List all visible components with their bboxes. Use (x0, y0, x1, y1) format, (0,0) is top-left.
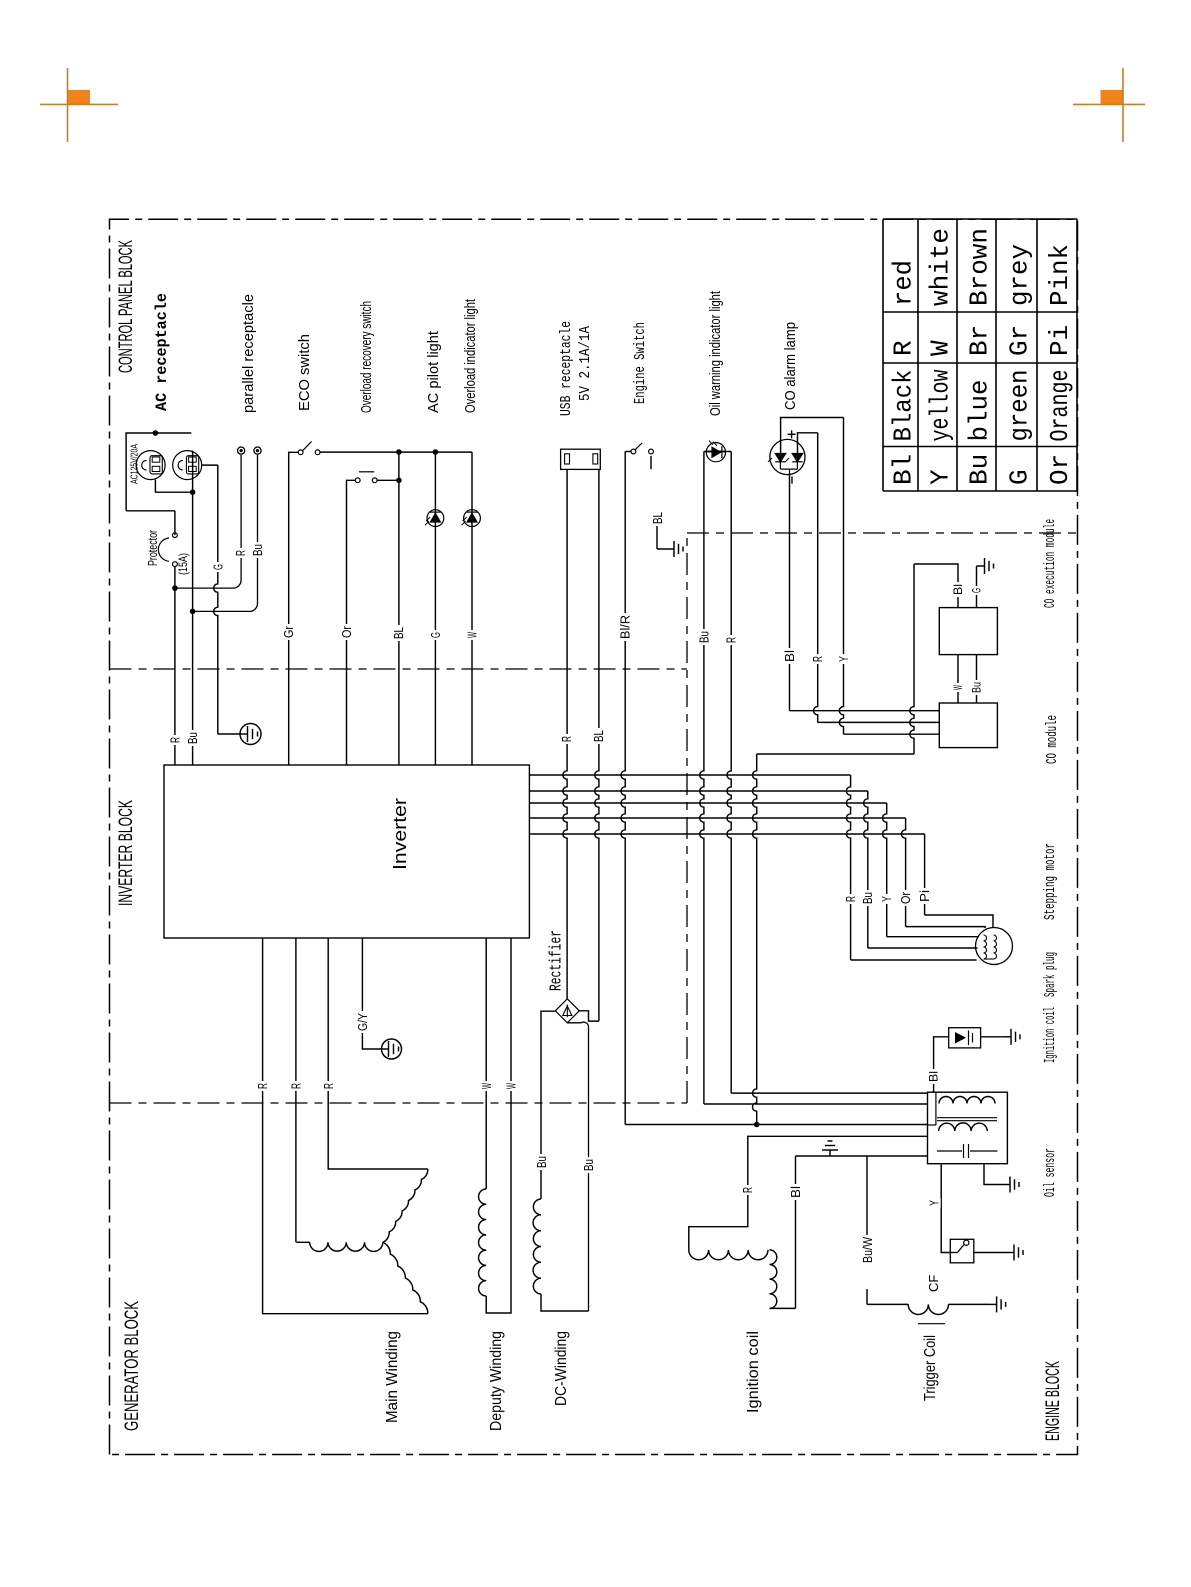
svg-text:Bl/R: Bl/R (618, 615, 633, 639)
wire rectifier top to DC winding (541, 1011, 555, 1199)
svg-text:R: R (168, 737, 183, 743)
wire Bu/W to trigger coil (866, 1156, 868, 1263)
svg-text:ENGINE BLOCK: ENGINE BLOCK (1043, 1361, 1064, 1441)
parallel receptacle pin 1 (238, 447, 245, 454)
trigger coil (867, 1303, 908, 1305)
svg-text:Stepping motor: Stepping motor (1042, 843, 1059, 920)
label Pi (motor) (919, 888, 931, 904)
label Or (341, 624, 353, 640)
AC receptacle socket 1 (136, 451, 165, 480)
label R (motor) (845, 894, 857, 904)
wire R USB to rectifier (563, 469, 567, 998)
svg-text:R: R (255, 1083, 270, 1089)
svg-text:G: G (428, 632, 443, 638)
wire color legend table (883, 219, 1077, 491)
svg-text:Pink: Pink (1045, 244, 1075, 306)
svg-text:5V 2.1A/1A: 5V 2.1A/1A (577, 326, 594, 401)
svg-text:Pi: Pi (1045, 325, 1075, 356)
label G (212, 562, 224, 572)
stepping motor (976, 928, 1013, 965)
ignition coil core (937, 1117, 997, 1119)
svg-text:Bu: Bu (696, 631, 711, 643)
svg-text:Y: Y (926, 469, 956, 485)
label G (exec) (971, 586, 982, 595)
svg-text:Bl: Bl (927, 1071, 941, 1082)
svg-text:Oil sensor: Oil sensor (1042, 1148, 1059, 1197)
earth ground circle (G/Y) (382, 1039, 402, 1059)
wire bundle v1 R (529, 774, 850, 776)
svg-text:yellow: yellow (926, 369, 956, 441)
earth ground (ignition box) (1003, 1184, 1010, 1186)
label Bu (dc1) (536, 1154, 548, 1170)
svg-text:Bu: Bu (860, 892, 875, 904)
svg-text:Orange: Orange (1045, 370, 1075, 442)
svg-text:R: R (843, 896, 858, 902)
wire Bl co lamp (789, 475, 791, 711)
wire BL USB to rectifier (595, 469, 599, 1021)
label W (overload) (466, 630, 478, 640)
svg-text:Rectifier: Rectifier (548, 930, 567, 991)
wire switch to BL bus (377, 479, 399, 481)
svg-text:BL: BL (650, 512, 665, 524)
label Bl (exec) (953, 582, 964, 597)
svg-text:Oil warning indicator light: Oil warning indicator light (707, 290, 724, 416)
wire bundle v3 Y (529, 802, 886, 804)
ECO switch (298, 450, 303, 455)
wire G pilot to inverter (434, 452, 436, 765)
label Y (co) (838, 654, 850, 664)
wire R co lamp (798, 433, 818, 454)
label Bu at inverter (187, 730, 199, 746)
label BL (usb) (593, 728, 605, 744)
CO alarm lamp (770, 439, 805, 474)
svg-text:Overload indicator light: Overload indicator light (462, 298, 479, 413)
svg-text:(15A): (15A) (176, 553, 190, 575)
wire co module link (757, 753, 914, 755)
wire Bl/R drop to ignition coil box (625, 1124, 927, 1126)
svg-text:CO execution module: CO execution module (1042, 519, 1059, 608)
svg-text:Bl: Bl (889, 454, 919, 485)
svg-text:W: W (465, 632, 480, 638)
main winding (263, 938, 428, 1314)
earth ground (ignition common) (829, 1150, 831, 1156)
earth ground circle (control panel G) (240, 724, 261, 745)
label G (pilot) (430, 630, 442, 640)
svg-text:Y: Y (879, 896, 894, 902)
ignition coil capacitor (937, 1150, 962, 1152)
wire receptacle junction (153, 430, 159, 436)
wire R oil light (706, 451, 731, 453)
earth ground (co exec) (977, 565, 985, 567)
svg-text:Protector: Protector (145, 530, 160, 566)
CO module box (939, 703, 997, 748)
svg-text:Y: Y (836, 656, 851, 662)
svg-text:AC125V/20A: AC125V/20A (130, 444, 141, 484)
svg-text:Or: Or (339, 625, 354, 638)
svg-text:Engine Switch: Engine Switch (632, 322, 649, 404)
svg-text:Bu: Bu (581, 1159, 596, 1171)
svg-text:R: R (288, 1083, 303, 1089)
wire Bl/R engine switch to ignition coil (625, 451, 631, 453)
divider co area right (dash-dot vertical) (687, 532, 1078, 534)
label R (parallel) (235, 548, 247, 558)
wire R drop to co module (818, 721, 940, 723)
wire oil sensor earth (974, 1252, 1007, 1254)
svg-text:BL: BL (391, 627, 406, 639)
wire BL to earth (656, 526, 658, 549)
wire G/Y from inverter (362, 938, 381, 1049)
wire BL to inverter (398, 452, 400, 765)
label Bu (module) (971, 680, 982, 695)
label W (dw2) (505, 1081, 517, 1091)
svg-text:W: W (504, 1083, 519, 1089)
divider generator block (dash-dot vertical) (110, 1102, 688, 1104)
label Bl/R (620, 613, 632, 641)
svg-text:red: red (889, 260, 919, 306)
earth ground (spark plug) (1004, 1036, 1011, 1038)
earth ground (oil sensor) (1007, 1252, 1014, 1254)
wire R drop to ignition coil box (731, 1092, 927, 1094)
svg-text:Bl: Bl (788, 1186, 803, 1198)
svg-text:Br: Br (965, 325, 995, 356)
label G/Y (357, 1011, 369, 1033)
wire socket2 Bu bus (192, 451, 194, 765)
svg-text:G: G (970, 588, 984, 593)
label Gr (283, 624, 295, 640)
deputy winding (485, 938, 487, 1189)
label R (mw3) (323, 1081, 335, 1091)
wire Bl drop to co module (790, 710, 940, 712)
wire Gr ECO to inverter (289, 452, 299, 765)
svg-text:Main Winding: Main Winding (384, 1331, 401, 1423)
svg-text:Pi: Pi (917, 890, 932, 902)
svg-text:white: white (926, 228, 956, 306)
svg-text:R: R (559, 736, 574, 742)
svg-text:Bu: Bu (970, 682, 984, 693)
wire rectifier left to DC winding (567, 1022, 588, 1311)
svg-text:Black: Black (889, 370, 919, 442)
wire Y drop to co module (844, 733, 940, 735)
svg-text:parallel receptacle: parallel receptacle (240, 294, 257, 413)
svg-text:CO module: CO module (1044, 715, 1061, 764)
protector (15A) (173, 533, 178, 538)
wire W overload light to inverter (471, 452, 473, 765)
earth ground (trigger coil) (990, 1303, 997, 1305)
wire protector to R bus (174, 567, 176, 589)
wire R bus to inverter (174, 588, 176, 765)
junction dot co link (754, 1122, 760, 1128)
svg-text:R: R (889, 340, 919, 356)
wire Y to oil sensor (941, 1164, 950, 1253)
label BL (engine sw) (652, 510, 664, 526)
wire bundle v5 Pi (529, 833, 924, 835)
svg-text:GENERATOR BLOCK: GENERATOR BLOCK (122, 1301, 143, 1431)
wire spark plug earth (981, 1036, 1004, 1038)
svg-text:Bu: Bu (965, 454, 995, 485)
label W (module) (953, 683, 964, 692)
registration mark top-left (0, 0, 130, 160)
svg-text:G/Y: G/Y (355, 1013, 370, 1031)
oil sensor (950, 1239, 974, 1263)
svg-text:BL: BL (591, 730, 606, 742)
AC receptacle socket 2 (173, 451, 202, 480)
svg-text:AC pilot light: AC pilot light (425, 330, 442, 413)
wire ECO lower to panel bus (320, 451, 472, 453)
ignition coil secondary coil (939, 1123, 988, 1131)
label W (dw1) (481, 1081, 493, 1091)
dc winding (533, 1199, 541, 1294)
wire G from receptacle (202, 464, 218, 466)
inverter U1 box (164, 765, 529, 938)
label Bl (co) (784, 648, 796, 664)
label + (co lamp) (791, 430, 793, 438)
svg-text:Inverter: Inverter (390, 798, 410, 870)
svg-text:R: R (724, 637, 739, 643)
ignition coil box (928, 1092, 1008, 1164)
wire bundle v2 Bu (529, 790, 867, 792)
svg-text:INVERTER BLOCK: INVERTER BLOCK (116, 800, 137, 906)
wire socket1 to R bus (155, 480, 192, 493)
earth ground (engine switch) (657, 548, 674, 550)
svg-text:Bl: Bl (782, 650, 797, 662)
wire Y co lamp (781, 418, 844, 454)
wire ignition box common (796, 1155, 928, 1157)
label Bu/W (862, 1235, 874, 1265)
svg-text:grey: grey (1005, 244, 1035, 306)
label Y (motor) (881, 894, 893, 904)
svg-text:Brown: Brown (965, 228, 995, 306)
svg-text:G: G (1005, 469, 1035, 485)
ignition source winding (689, 1136, 928, 1250)
ignition coil primary coil (939, 1097, 995, 1104)
label Bl (spark) (928, 1069, 939, 1084)
AC receptacle outline wire (126, 433, 191, 511)
wire Bu/W left segment (866, 1289, 868, 1304)
svg-text:Spark plug: Spark plug (1042, 952, 1059, 997)
svg-text:Overload recovery switch: Overload recovery switch (358, 301, 375, 413)
svg-text:G: G (211, 564, 226, 570)
label R at inverter (169, 735, 181, 745)
engine switch (631, 449, 636, 454)
svg-text:AC receptacle: AC receptacle (153, 293, 171, 411)
svg-text:W: W (479, 1083, 494, 1089)
svg-text:blue: blue (965, 380, 995, 442)
wire Bl co exec (914, 564, 958, 608)
label R (ignition winding) (742, 1185, 754, 1195)
sheet dashed border (110, 219, 1078, 1454)
wire rectifier bottom jog to USB BL (579, 1011, 599, 1021)
wire G co exec to earth (976, 566, 978, 608)
CO execution module box (939, 608, 997, 655)
wire Bu drop to ignition coil box (704, 1103, 928, 1105)
label Bu (motor) (862, 890, 874, 906)
label Bu (parallel) (252, 542, 264, 558)
spark plug (949, 1028, 981, 1048)
svg-text:R: R (810, 656, 825, 662)
wire Bl ignition common (795, 1156, 797, 1308)
label Y (sensor) (928, 1198, 940, 1208)
svg-text:CF: CF (926, 1275, 941, 1292)
svg-text:Bu: Bu (534, 1156, 549, 1168)
label R (co) (812, 654, 824, 664)
svg-text:Ignition coil: Ignition coil (1042, 1007, 1059, 1063)
svg-text:Bu: Bu (185, 732, 200, 744)
wire R to parallel receptacle (177, 455, 241, 588)
wire bundle v4 Or (529, 817, 905, 819)
svg-text:R: R (233, 550, 248, 556)
wire W between modules (957, 655, 959, 703)
svg-text:Gr: Gr (1005, 325, 1035, 356)
label Bl (ignition) (790, 1184, 802, 1200)
svg-text:Bu: Bu (250, 544, 265, 556)
svg-text:Bu/W: Bu/W (860, 1236, 875, 1263)
svg-text:Or: Or (898, 891, 913, 904)
svg-text:Bl: Bl (951, 584, 965, 595)
parallel receptacle pin 2 (254, 447, 261, 454)
svg-text:Deputy Winding: Deputy Winding (488, 1331, 505, 1431)
label R (mw1) (257, 1081, 269, 1091)
label Or (motor) (900, 890, 912, 906)
wire Bu oil light (704, 451, 726, 453)
svg-text:Ignition coil: Ignition coil (745, 1331, 762, 1413)
registration mark top-right (1060, 0, 1191, 160)
label - (co lamp) (791, 476, 793, 483)
label R (usb) (561, 734, 573, 744)
wire Or to inverter (347, 480, 356, 765)
divider inverter/control panel (dash-dot vertical) (110, 668, 688, 670)
USB receptacle box (561, 449, 601, 469)
svg-text:R: R (740, 1187, 755, 1193)
wire Bu to parallel receptacle (193, 455, 258, 611)
wire spark plug to ignition coil (934, 1037, 949, 1092)
wire engine switch BL stub (650, 456, 652, 469)
svg-text:W: W (951, 685, 965, 690)
rectifier D1 (555, 999, 579, 1023)
AC pilot light (427, 510, 444, 527)
protector wire (174, 511, 176, 535)
overload indicator light (464, 510, 481, 527)
oil warning indicator light (706, 443, 725, 462)
label Bu (oil) (698, 629, 710, 645)
overload recovery switch (355, 478, 360, 483)
label Bu (dc2) (583, 1157, 595, 1173)
svg-text:ECO switch: ECO switch (296, 334, 313, 411)
svg-text:W: W (926, 340, 956, 356)
label R (mw2) (290, 1081, 302, 1091)
svg-text:green: green (1005, 370, 1035, 442)
svg-text:R: R (321, 1083, 336, 1089)
label R (oil) (726, 635, 738, 645)
svg-text:CONTROL PANEL BLOCK: CONTROL PANEL BLOCK (116, 240, 137, 373)
svg-text:Or: Or (1045, 454, 1075, 485)
wire ignition box earth (984, 1164, 1003, 1185)
svg-text:Trigger Coil: Trigger Coil (922, 1335, 939, 1401)
svg-text:DC-Winding: DC-Winding (553, 1331, 570, 1406)
svg-text:Y: Y (927, 1200, 942, 1206)
wire Bu between modules (976, 655, 978, 703)
label BL (393, 625, 405, 641)
svg-text:USB receptacle: USB receptacle (558, 321, 575, 416)
divider inverter/co area (dash-dot horizontal) (686, 533, 688, 1103)
svg-text:Gr: Gr (281, 625, 296, 638)
svg-text:CO alarm lamp: CO alarm lamp (782, 322, 799, 410)
